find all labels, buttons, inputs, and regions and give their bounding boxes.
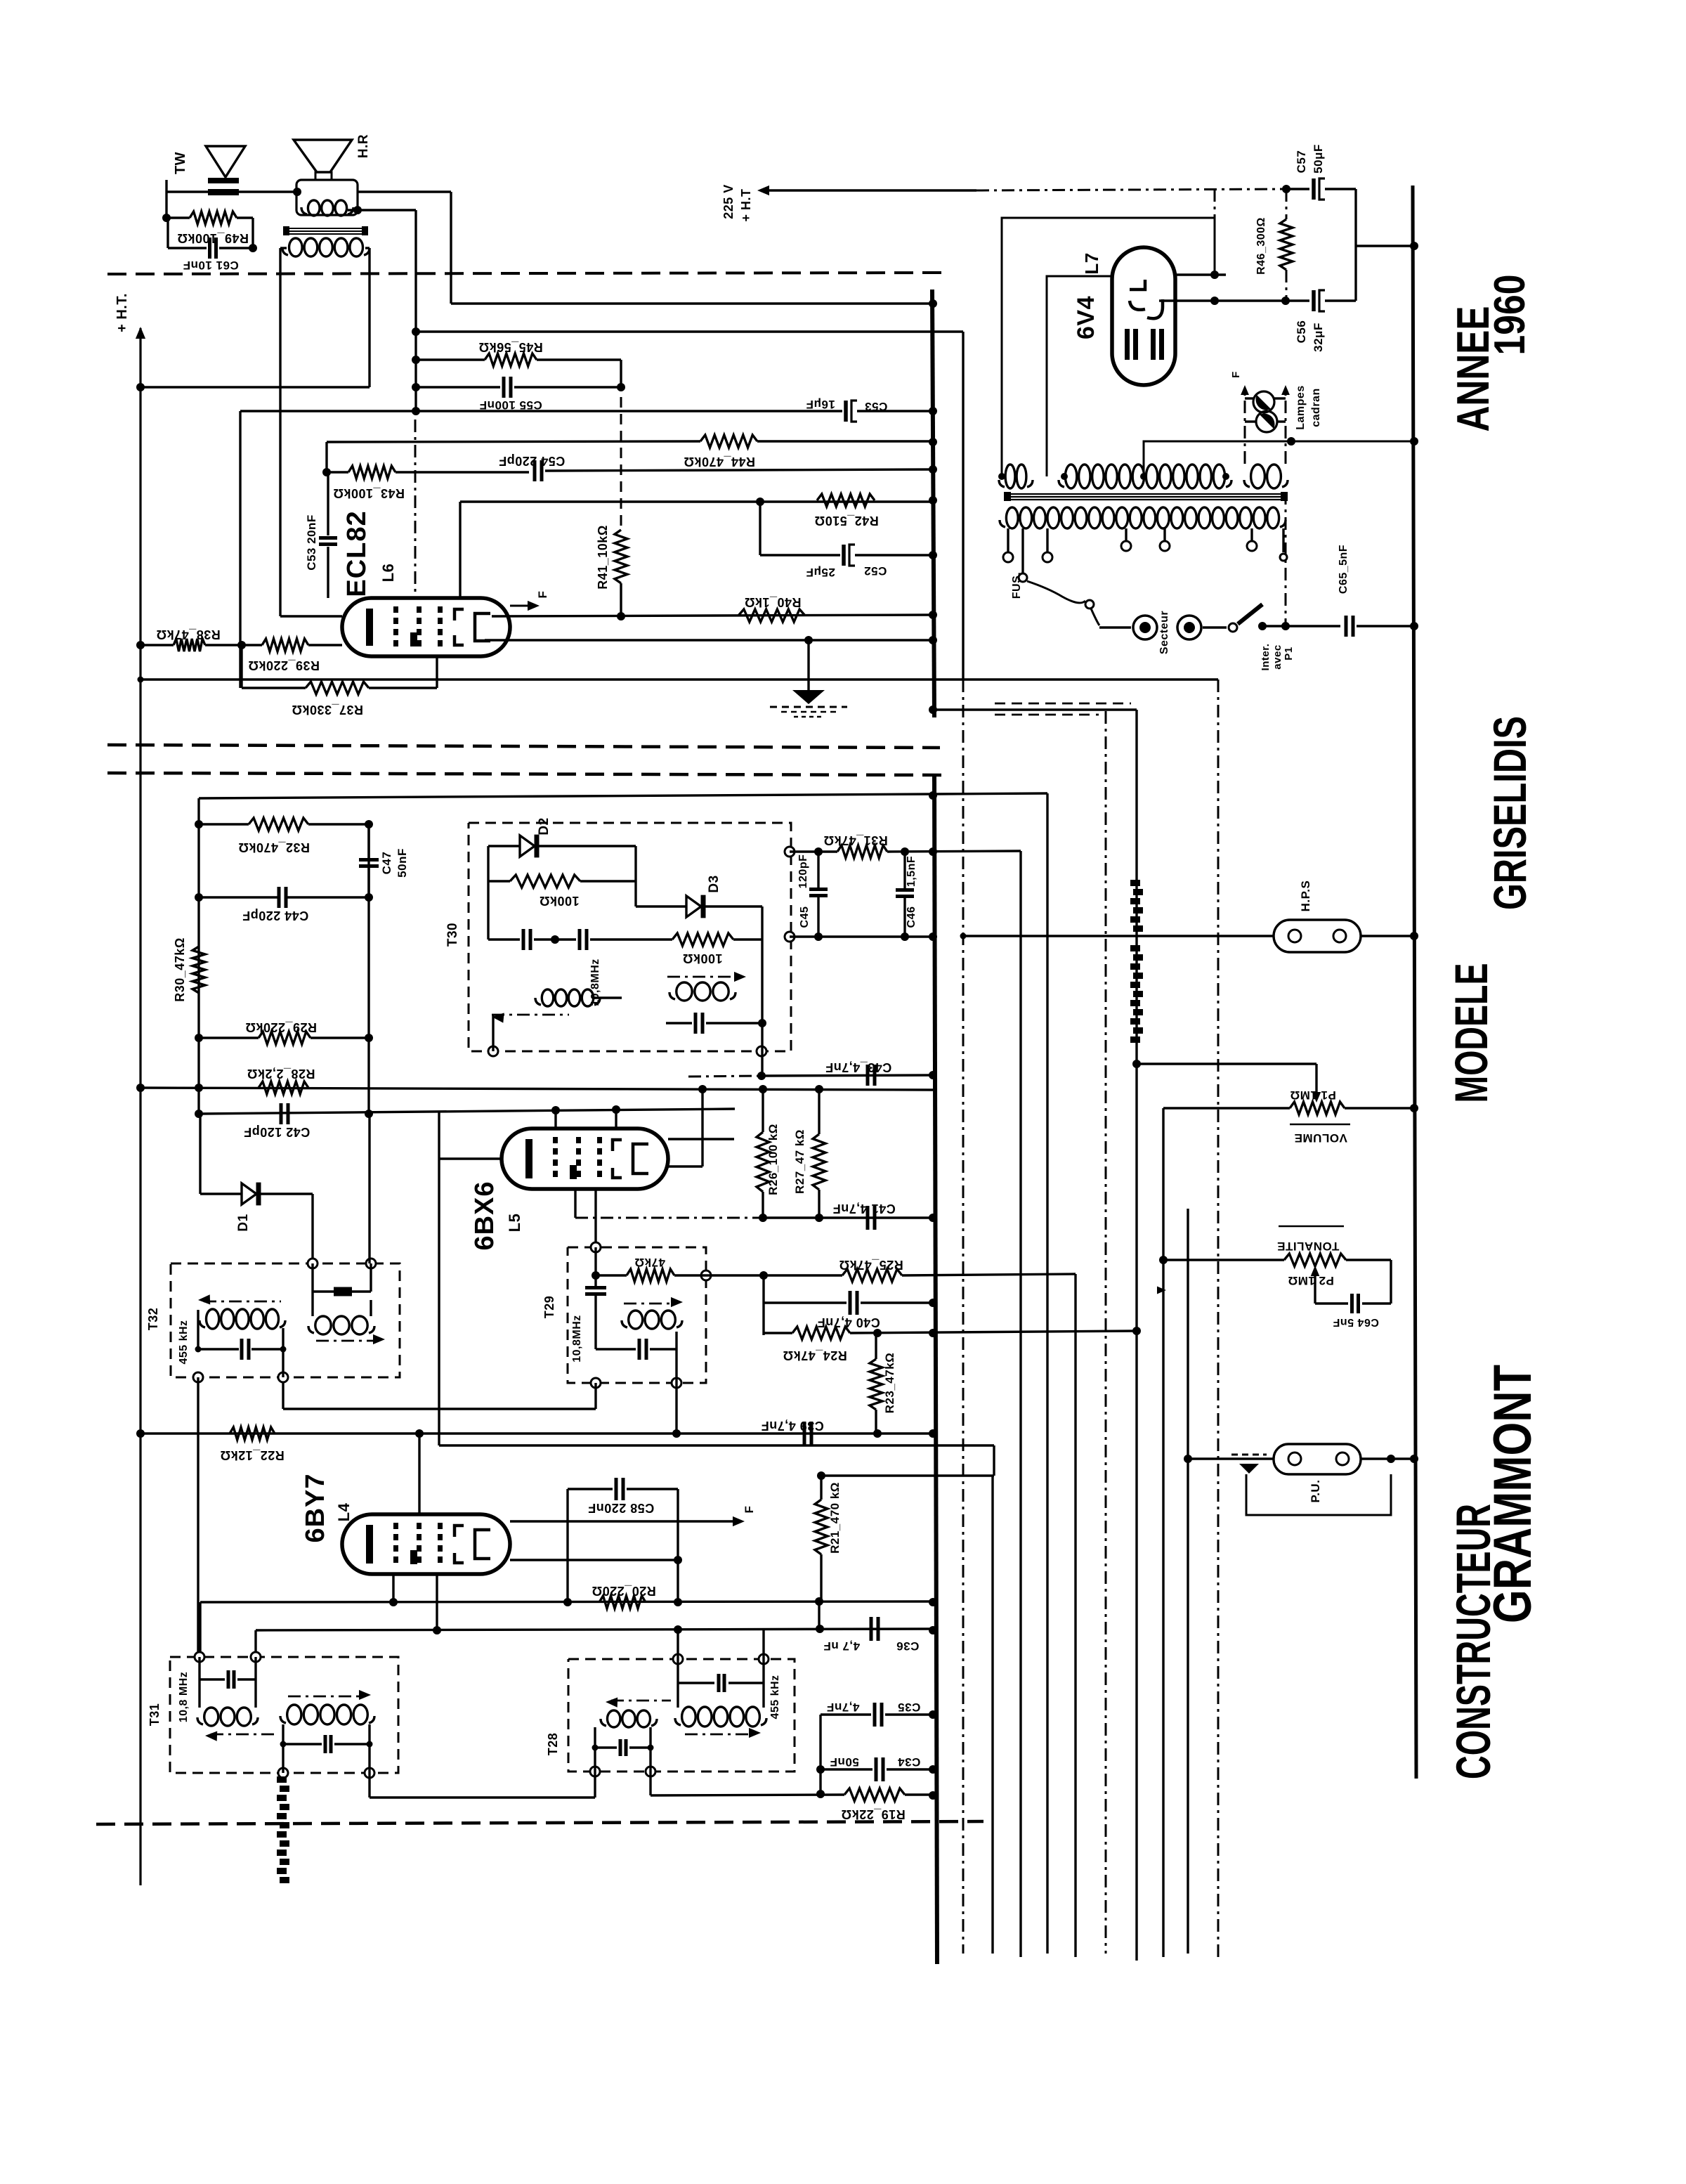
wire 6V4 anode right [1175,189,1226,279]
wire y=585 to C53 16uF [240,410,842,412]
wire HR box to bus (y=432) [358,192,934,304]
diode D3 [636,875,762,918]
capacitor C47 50nF [359,824,409,897]
svg-text:L5: L5 [506,1214,523,1233]
svg-text:R41_10kΩ: R41_10kΩ [596,525,610,590]
wire C36 line y=2320 [256,1625,934,1657]
svg-text:10,8MHz: 10,8MHz [571,1315,583,1363]
svg-text:C57: C57 [1295,150,1308,174]
output transformer primary box [296,180,358,216]
svg-text:F: F [1230,371,1242,378]
resistor R29 220k [195,1020,373,1044]
cap T32 secondary [313,1263,371,1316]
6BY7 grid pin [418,1434,420,1514]
capacitor C56 32uF [1281,290,1356,352]
dial lamps Lampes cadran [1230,371,1322,464]
wire y=1333 [790,932,934,941]
capacitor C43 4.7nF [825,1060,892,1086]
svg-text:GRISELIDIS: GRISELIDIS [1484,716,1536,910]
svg-text:6V4: 6V4 [1073,296,1099,339]
coil T32 primary [198,1294,285,1329]
wire TW bar to HR box [239,188,301,196]
capacitor C53b 20nF grid [305,472,337,598]
svg-text:50nF: 50nF [396,848,409,878]
title GRAMMONT [1483,1365,1543,1623]
svg-text:R32_470kΩ: R32_470kΩ [238,840,310,854]
dashed separator line top (y=388) [107,273,945,274]
title MODELE [1445,963,1497,1103]
tube plate riser y714 [460,498,934,598]
wire C43 line [688,1072,934,1080]
capacitor C58 220nF [563,1478,682,1606]
resistor R24 47k [764,1327,1137,1363]
svg-text:H.P.S: H.P.S [1299,880,1312,912]
title 1960 [1486,275,1534,356]
svg-text:D1: D1 [236,1214,251,1231]
wire T28 tops [678,1629,764,1659]
svg-text:C44 220pF: C44 220pF [242,909,309,923]
node circles T32 [193,1259,376,1382]
tube ECL82 L6 [342,510,510,656]
wire FM rail y=1132 [199,793,1047,798]
svg-text:TONALITE: TONALITE [1277,1240,1340,1253]
cap T28 left [592,1739,654,1756]
coil T31 left [197,1708,274,1741]
svg-text:C53: C53 [865,400,888,413]
svg-text:avec: avec [1272,644,1283,669]
dashed separator line bottom (y=2595) [96,1821,983,1824]
resistor R39 220k [242,639,342,672]
title ANNEE [1447,306,1498,432]
resistor 47k (T29) [592,1256,706,1282]
wire y=2057 [439,1445,994,1476]
svg-text:R43_100kΩ: R43_100kΩ [333,486,405,500]
capacitor C52 25uF [760,545,934,579]
coil T31 right [280,1690,374,1773]
coil T28 left [595,1698,671,1772]
power transformer core [1004,492,1288,501]
wire VOLUME wiper line y=1514 [1132,1060,1316,1090]
coil T32 secondary [308,1316,385,1344]
capacitor C55 100nF [416,360,625,412]
svg-text:47kΩ: 47kΩ [634,1256,665,1269]
filament arrow F (ECL82) [510,591,549,611]
potentiometer P2 TONALITE [1157,1226,1391,1304]
bus main vertical x=1330 [932,290,937,1964]
shielded cable braid on x=1618 [1130,880,1143,1043]
svg-text:R28_2,2kΩ: R28_2,2kΩ [247,1067,315,1081]
transformer T28 box [546,1659,795,1772]
svg-text:+ H.T.: + H.T. [115,293,130,332]
svg-text:C41 4,7nF: C41 4,7nF [832,1202,896,1216]
svg-text:R23_47kΩ: R23_47kΩ [883,1353,896,1414]
transformer T29 box [542,1247,706,1383]
capacitor C54 220pF [499,454,934,481]
svg-text:6BX6: 6BX6 [470,1181,499,1250]
svg-text:50nF: 50nF [830,1755,859,1769]
wire trunk x=1371 [960,332,967,1954]
output transformer secondary coil [282,238,370,256]
resistor R44 470k [684,435,757,469]
svg-text:P1 1MΩ: P1 1MΩ [1290,1088,1336,1102]
antenna braid below T31 [277,1776,289,1883]
svg-text:T31: T31 [148,1703,162,1727]
capacitor C57 50uF [1282,144,1356,200]
dash-dot lamp feed [1285,492,1287,626]
svg-text:cadran: cadran [1310,388,1322,427]
wire C42 line y=1583 [195,1105,735,1118]
resistor R31 47k [790,833,1021,858]
capacitor C36 4.7nF [823,1617,919,1653]
ground (ECL82 cathode) [770,640,847,717]
dashed separator line mid-1 (y=1060) [107,745,940,748]
resistor R21 470k [815,1476,842,1601]
wire R42 to C52 [759,500,761,555]
6BY7 cathode pins [389,1574,441,1634]
wire trunk x=1656 [1159,1108,1168,1957]
dashed separator line mid-2 (y=1098) [107,773,943,775]
svg-text:R30_47kΩ: R30_47kΩ [173,937,187,1002]
node circles T30 [488,847,795,1056]
wire trunk x=1491 [1046,793,1048,1954]
coil T30 right [667,972,746,1001]
cap T31 left [200,1657,256,1708]
capacitor C39 4.7nF [761,1419,824,1445]
wire R25 node down [762,1275,764,1335]
svg-text:C61 10nF: C61 10nF [183,259,239,272]
svg-text:R29_220kΩ: R29_220kΩ [245,1020,317,1034]
connector H.P.S [963,880,1414,952]
wire HR coil to node x592 [348,206,416,411]
wire switch to bus + C65 [1262,545,1414,637]
svg-text:L7: L7 [1081,252,1102,274]
power transformer secondary [998,464,1288,488]
wire plate line y=877 [492,612,934,620]
resistor R49 100k [162,212,253,245]
svg-text:C53 20nF: C53 20nF [305,514,318,571]
svg-text:+ H.T: + H.T [739,188,753,221]
svg-text:TW: TW [173,152,188,174]
tube 6BX6 L5 [470,1129,668,1251]
cap T30 bottom [622,998,766,1034]
resistor R43 100k [322,466,529,500]
svg-text:L4: L4 [335,1502,353,1521]
transformer T30 box [445,823,791,1051]
svg-text:225 V: 225 V [721,184,736,219]
svg-text:4,7nF: 4,7nF [827,1701,860,1714]
wire P.U. shield loop [1246,1474,1391,1515]
power transformer primary [1000,507,1286,528]
svg-text:100kΩ: 100kΩ [683,951,723,966]
svg-text:50μF: 50μF [1312,144,1325,174]
switch Inter avec P1 [1203,604,1295,670]
svg-text:455 kHz: 455 kHz [178,1320,190,1364]
wire heater line y=967 [138,677,1219,683]
junction dots on +HT rail [136,383,145,1438]
svg-text:C64 5nF: C64 5nF [1333,1316,1379,1328]
bus right vertical x=2013 [1413,186,1416,1779]
svg-text:C43_4,7nF: C43_4,7nF [825,1060,892,1074]
svg-text:Lampes: Lampes [1295,385,1307,429]
fuse FUS. [1011,528,1099,625]
svg-text:T30: T30 [445,923,460,947]
wire 6V4 plate pin [1047,276,1112,476]
svg-text:H.R: H.R [356,134,371,158]
resistor R42 510 [814,494,879,528]
svg-text:VOLUME: VOLUME [1294,1131,1347,1145]
svg-text:F: F [536,591,549,599]
resistor 100k (T30 lower) [636,933,762,966]
capacitor C34 50nF [821,1755,934,1781]
wire y=629 (B+ to ECL82) [327,441,934,472]
resistor R32 470k [195,818,373,854]
wire C57 to bus [1355,189,1414,301]
svg-text:F: F [743,1506,756,1514]
svg-text:C34: C34 [898,1755,921,1769]
svg-text:T29: T29 [542,1296,556,1319]
wire HT center tap [1144,437,1414,476]
svg-text:R45_56kΩ: R45_56kΩ [478,340,543,354]
capacitor C45 120pF [797,852,828,937]
resistor R37 330k [242,656,437,717]
capacitor C41 4.7nF [832,1202,896,1230]
resistor R23 47k [870,1333,896,1434]
svg-text:R37_330kΩ: R37_330kΩ [292,703,363,717]
capacitor C61 10nF [183,238,257,272]
capacitor C42 120pF [244,1103,311,1139]
resistor R30 47k [173,937,205,1002]
tube 6V4 L7 (rectifier) [1073,247,1175,385]
6BY7 plate arrow F [510,1506,756,1527]
wire trunk x=1531 [1074,1274,1076,1957]
wire R20 line y=2280 [200,1597,934,1657]
wire 6V4 anode loop left [1002,218,1215,476]
svg-text:R49_100kΩ: R49_100kΩ [177,231,249,245]
wire R21 top y=2100 [817,1471,994,1480]
resistor R41 10k [596,525,627,616]
title CONSTRUCTEUR [1446,1504,1501,1779]
dash-dot from node x592 to tube [414,420,417,598]
svg-text:C56: C56 [1295,320,1308,344]
wire T29 bottom taps [283,1377,677,1434]
primary taps with terminals [1003,528,1287,562]
svg-text:R46_300Ω: R46_300Ω [1255,217,1267,275]
wire y=1010 bus to x1618 [934,708,1137,710]
coil T29 [571,1297,683,1363]
wire T31 to ground line [370,1773,595,1798]
vertical x283 [197,798,200,1114]
svg-text:4,7 nF: 4,7 nF [823,1639,860,1653]
coil T28 right [675,1707,766,1738]
tube 6BY7 L4 [301,1473,510,1574]
wire T32 top-right to C42 line [368,1114,370,1263]
resistor R38 47k [140,628,246,651]
svg-text:FUS.: FUS. [1011,572,1023,599]
capacitor C40 4.7nF [764,1291,934,1330]
wire trunk x=1413 [991,1476,993,1954]
svg-text:10,8MHz: 10,8MHz [589,958,601,1006]
svg-text:R38_47kΩ: R38_47kΩ [156,628,221,642]
svg-text:R31_47kΩ: R31_47kΩ [823,833,888,847]
svg-text:C35: C35 [898,1701,921,1714]
svg-text:C42 120pF: C42 120pF [244,1125,311,1139]
svg-text:R24_47kΩ: R24_47kΩ [783,1348,847,1363]
wire node B dashed to R41 [620,397,622,527]
resistor R25 47k [706,1258,1076,1282]
svg-text:C65_5nF: C65_5nF [1338,545,1350,594]
svg-text:C39 4,7nF: C39 4,7nF [761,1419,824,1433]
svg-text:32μF: 32μF [1312,323,1325,352]
vertical x342 [239,411,241,688]
svg-text:120pF: 120pF [797,854,809,889]
wire trunk x=1574 dash-dot [1105,711,1107,1954]
svg-text:C54 220pF: C54 220pF [499,454,566,468]
svg-text:Inter.: Inter. [1260,644,1272,671]
wire to R37 [240,645,242,688]
svg-text:6BY7: 6BY7 [301,1473,330,1542]
dashed pair y1005 [995,703,1131,715]
resistor 100k (T30 upper) [488,846,636,908]
wire TW to R49 node [166,180,208,218]
svg-text:C47: C47 [380,852,393,875]
svg-text:C52: C52 [864,564,887,578]
svg-text:R44_470kΩ: R44_470kΩ [684,455,755,469]
svg-text:R19_22kΩ: R19_22kΩ [841,1807,906,1821]
connector P.U. [1188,1444,1414,1502]
6BX6 left pin [439,1112,502,1445]
wire x525 down [367,824,370,1114]
cap T29 grid [585,1247,606,1349]
potentiometer P1 VOLUME [1163,1088,1414,1145]
svg-text:D3: D3 [707,875,721,892]
transformer T32 box [146,1263,400,1377]
svg-text:C45: C45 [799,906,811,928]
diode D1 [200,1114,313,1263]
wire T29 links [0,0,1,1]
svg-text:MODELE: MODELE [1445,963,1497,1103]
resistor R19 22k [651,1788,934,1821]
svg-text:Secteur: Secteur [1158,611,1170,654]
cap T29 bottom [596,1332,677,1383]
svg-text:C58 220nF: C58 220nF [588,1501,655,1515]
svg-text:455 kHz: 455 kHz [769,1675,781,1719]
capacitor C64 5nF [1315,1294,1391,1328]
svg-text:C55 100nF: C55 100nF [479,398,542,412]
svg-text:R20_220Ω: R20_220Ω [592,1584,656,1598]
wires T30 internals [493,906,762,1075]
junction dots node x592 [412,327,420,415]
svg-text:R25_47kΩ: R25_47kΩ [839,1258,903,1272]
wire R49 left leg [168,218,253,248]
svg-text:R39_220kΩ: R39_220kΩ [248,658,320,672]
junction dots on main bus [929,299,937,1800]
svg-text:P2 1MΩ: P2 1MΩ [1288,1274,1334,1287]
node circles T31 [195,1652,374,1778]
6BX6 pins top [556,1110,616,1129]
svg-text:1960: 1960 [1486,275,1534,356]
svg-text:P1: P1 [1283,646,1295,660]
wire AVC line y=1548 [140,1084,934,1093]
svg-text:16μF: 16μF [806,398,835,411]
svg-text:T28: T28 [546,1733,560,1756]
svg-text:R26_100 kΩ: R26_100 kΩ [766,1124,780,1195]
node circles T28 [590,1654,769,1776]
transformer T31 box [148,1657,398,1773]
wire trunk x=1618 [1132,710,1141,1961]
title GRISELIDIS [1484,716,1536,910]
cap T31 right [280,1735,373,1753]
wire trunk x=1734 dash-dot [1217,680,1220,1957]
capacitor C35 4.7nF [816,1701,934,1798]
speaker TW (tweeter) [173,146,245,195]
svg-text:C36: C36 [896,1639,920,1653]
svg-text:R21_470 kΩ: R21_470 kΩ [828,1482,842,1554]
6BY7 screen line [510,1556,682,1564]
capacitor C44 220pF [195,887,373,923]
wire T28 bottoms to R19 line [595,1772,651,1798]
speaker HR (main) [294,134,371,180]
svg-text:T32: T32 [146,1308,160,1331]
svg-text:P.U.: P.U. [1309,1480,1322,1503]
output transformer core [283,226,368,235]
svg-text:R40_1kΩ: R40_1kΩ [745,595,802,609]
node circles T29 [591,1242,711,1388]
diode D2 [488,817,636,857]
svg-text:10,8 MHz: 10,8 MHz [178,1672,190,1722]
wire T30 mid caps [488,881,636,950]
cap T28 right [678,1659,764,1708]
resistor R28 2.2k [247,1067,315,1094]
resistor R46 (bleed) [1255,189,1293,301]
svg-text:ECL82: ECL82 [342,510,372,597]
wire cathode line y=911 [485,636,934,644]
wire 225V +HT line [721,184,1286,221]
resistor R40 1k [738,595,805,622]
svg-text:D2: D2 [537,817,551,835]
resistor R45 56k [416,340,621,366]
node +HT supply rail (left) [115,293,145,1885]
svg-text:R22_12kΩ: R22_12kΩ [220,1448,285,1462]
wire C41 line [575,1214,934,1222]
svg-text:R42_510Ω: R42_510Ω [814,514,879,528]
svg-text:L6: L6 [379,564,397,583]
coil T30 left [492,958,622,1022]
svg-text:C46: C46 [906,906,917,928]
resistor R26 100k [757,1089,780,1218]
resistor R20 220 [592,1584,656,1608]
resistor R27 47k [793,1089,825,1218]
capacitor C46 1.5nF [896,852,917,937]
wire transformer secondary left down to ECL82 grid [280,248,342,616]
svg-text:1,5nF: 1,5nF [906,856,917,887]
cap T32 primary [195,1310,287,1377]
wire AGC line y=2040 [140,1429,934,1438]
6BX6 pin g3 and plate [575,1089,734,1247]
wire trunk x=1691 [1184,1209,1192,1954]
wire T32 bottom-left to T31 [197,1377,199,1657]
wire to vertical 1371 (y=472) [416,330,963,332]
resistor R22 12k [220,1427,285,1462]
junction dots right bus [1410,242,1418,1463]
wire transformer secondary right to HT [140,248,370,387]
svg-text:100kΩ: 100kΩ [540,894,580,908]
svg-text:25μF: 25μF [806,566,835,579]
svg-text:CONSTRUCTEUR: CONSTRUCTEUR [1446,1504,1501,1779]
wire 6V4 cathode to C56 [1159,297,1286,305]
mains socket Secteur [1099,611,1201,654]
svg-text:R27_47 kΩ: R27_47 kΩ [793,1129,806,1194]
wire R21/R20/C36 link x=1166 [818,1601,820,1629]
